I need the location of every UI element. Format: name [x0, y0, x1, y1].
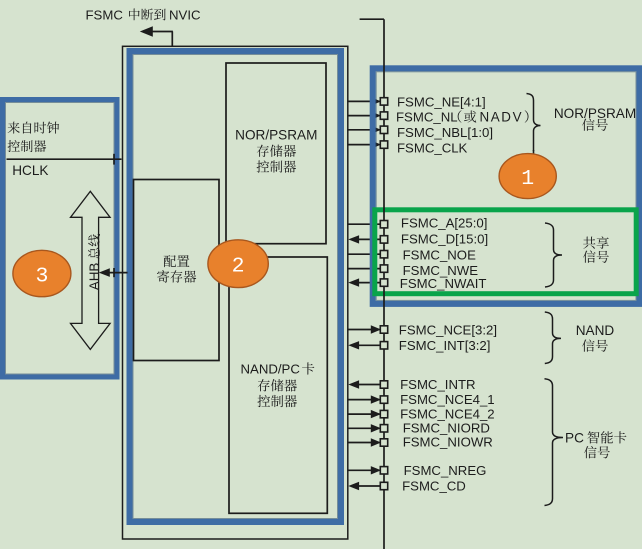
callout 3 (orange ellipse) [13, 250, 71, 296]
wire row FSMC_NOE [347, 253, 380, 255]
svg-text:FSMC_D[15:0]: FSMC_D[15:0] [401, 232, 488, 247]
svg-text:FSMC_NCE4_2: FSMC_NCE4_2 [400, 407, 495, 422]
label: registers [157, 270, 196, 283]
label FSMC_INTR [400, 377, 475, 392]
svg-text:PC: PC [565, 431, 584, 446]
rail top stub to NAND controller [360, 18, 384, 20]
wire row FSMC_NL [347, 111, 381, 119]
wire row FSMC_INTR [348, 380, 380, 388]
pin square FSMC_NL [380, 112, 387, 119]
pin square FSMC_CLK [380, 141, 387, 148]
wire row FSMC_NBL[1:0] [347, 126, 381, 134]
wire row FSMC_NIOWR [347, 438, 381, 446]
svg-text:FSMC: FSMC [86, 7, 124, 22]
pin square FSMC_NIOWR [380, 439, 387, 446]
svg-text:FSMC_A[25:0]: FSMC_A[25:0] [401, 216, 488, 231]
vertical signal rail [383, 19, 385, 549]
pin square FSMC_NWAIT [380, 279, 387, 286]
NOR/PSRAM signal group box (blue) [373, 68, 640, 304]
label FSMC_INT[3:2] [399, 338, 491, 353]
label FSMC_NL (or NADV) [396, 110, 529, 125]
clock source box (blue) [3, 100, 118, 378]
label: NOR/PSRAM [235, 128, 317, 143]
svg-text:FSMC_INTR: FSMC_INTR [400, 377, 475, 392]
label FSMC_NBL[1:0] [397, 125, 493, 140]
svg-text:FSMC_NWAIT: FSMC_NWAIT [400, 276, 487, 291]
svg-text:FSMC_NL: FSMC_NL [396, 110, 458, 125]
label FSMC_NIOWR [403, 435, 493, 450]
label: HCLK [12, 163, 48, 178]
shared signal group box (green) [375, 210, 636, 294]
pin square FSMC_INTR [380, 381, 387, 388]
pin square FSMC_NOE [380, 251, 387, 258]
label FSMC_NIORD [403, 421, 490, 436]
svg-text:NOR/PSRAM: NOR/PSRAM [554, 106, 636, 121]
label NOR/PSRAM signals [554, 106, 636, 121]
svg-text:FSMC_NREG: FSMC_NREG [404, 463, 487, 478]
label FSMC_NWAIT [400, 276, 487, 291]
config register box [134, 180, 220, 361]
wire row FSMC_NCE[3:2] [347, 325, 381, 333]
svg-text:FSMC_NCE4_1: FSMC_NCE4_1 [400, 392, 495, 407]
NAND/PC card controller box [229, 257, 327, 513]
brace PC card signals [545, 379, 564, 506]
wire row FSMC_NIORD [347, 424, 381, 432]
svg-text:FSMC_NE[4:1]: FSMC_NE[4:1] [397, 94, 486, 109]
label: FSMC interrupt to NVIC [86, 7, 201, 22]
pin square FSMC_NIORD [380, 425, 387, 432]
label FSMC_D[15:0] [401, 232, 488, 247]
label: AHB bus (rotated) [87, 234, 102, 290]
AHB bus double arrow [71, 191, 111, 349]
wire row FSMC_NREG [347, 466, 381, 474]
pin square FSMC_NWE [380, 265, 387, 272]
svg-text:FSMC_NIORD: FSMC_NIORD [403, 421, 490, 436]
label FSMC_NCE4_2 [400, 407, 495, 422]
label: config [164, 255, 190, 267]
wire row FSMC_A[25:0] [347, 223, 380, 225]
pin square FSMC_D[15:0] [380, 236, 387, 243]
label FSMC_NCE[3:2] [399, 322, 497, 337]
wire row FSMC_INT[3:2] [348, 341, 380, 349]
HCLK wire [7, 154, 122, 165]
label FSMC_CD [402, 479, 466, 494]
brace NOR/PSRAM signals [527, 94, 541, 152]
svg-text:NOR/PSRAM: NOR/PSRAM [235, 128, 317, 143]
label FSMC_NE[4:1] [397, 94, 486, 109]
label FSMC_CLK [397, 141, 468, 156]
pin square FSMC_NREG [380, 467, 387, 474]
NOR/PSRAM controller box [226, 63, 326, 244]
pin square FSMC_NE[4:1] [380, 98, 387, 105]
AHB link wire [99, 268, 128, 277]
label FSMC_A[25:0] [401, 216, 488, 231]
svg-text:FSMC_INT[3:2]: FSMC_INT[3:2] [399, 338, 491, 353]
label PC card signals [565, 431, 626, 446]
pin square FSMC_NCE[3:2] [380, 326, 387, 333]
svg-text:HCLK: HCLK [12, 163, 48, 178]
svg-text:1: 1 [521, 167, 534, 191]
svg-text:FSMC_NIOWR: FSMC_NIOWR [403, 435, 493, 450]
label FSMC_NCE4_1 [400, 392, 495, 407]
stem to callout 1 [533, 150, 535, 163]
label: NAND memory [258, 379, 297, 391]
label: NOR controller [257, 160, 296, 172]
label NAND signals [576, 323, 615, 338]
svg-text:NAND/PC: NAND/PC [241, 362, 301, 377]
label: from clock controller line1 [8, 122, 59, 134]
svg-text:FSMC_CD: FSMC_CD [402, 479, 466, 494]
svg-text:NADV: NADV [480, 110, 524, 125]
svg-text:AHB: AHB [87, 263, 102, 291]
label NOR/PSRAM signals 2 [582, 118, 608, 130]
callout 2 (orange ellipse) [208, 240, 268, 288]
brace NAND signals [545, 312, 561, 364]
label FSMC_NOE [403, 248, 476, 263]
label PC card signals 2 [584, 446, 610, 458]
callout 1 (orange ellipse) [499, 154, 556, 199]
svg-text:3: 3 [35, 265, 48, 289]
svg-text:FSMC_NBL[1:0]: FSMC_NBL[1:0] [397, 125, 493, 140]
wire row FSMC_CD [348, 482, 380, 490]
label: from clock controller line2 [8, 140, 47, 152]
label: NAND/PC card [241, 362, 315, 377]
pin square FSMC_CD [380, 482, 387, 489]
wire row FSMC_NCE4_2 [347, 410, 381, 418]
brace shared signals [545, 223, 562, 287]
svg-text:FSMC_NCE[3:2]: FSMC_NCE[3:2] [399, 322, 497, 337]
wire row FSMC_D[15:0] [348, 235, 380, 243]
pin square FSMC_NCE4_2 [380, 410, 387, 417]
svg-text:NVIC: NVIC [169, 7, 201, 22]
wire row FSMC_NWE [347, 268, 380, 270]
pin square FSMC_NBL[1:0] [380, 126, 387, 133]
label FSMC_NREG [404, 463, 487, 478]
wire row FSMC_CLK [347, 140, 381, 148]
svg-text:FSMC_NOE: FSMC_NOE [403, 248, 476, 263]
pin square FSMC_INT[3:2] [380, 342, 387, 349]
label: NOR memory [257, 145, 296, 157]
wire row FSMC_NWAIT [348, 278, 380, 286]
wire row FSMC_NCE4_1 [347, 395, 381, 403]
pin square FSMC_A[25:0] [380, 221, 387, 228]
label FSMC_NWE [403, 263, 479, 278]
pin square FSMC_NCE4_1 [380, 396, 387, 403]
label shared signals 1 [583, 236, 609, 248]
svg-text:2: 2 [232, 255, 245, 279]
label NAND signals 2 [582, 339, 608, 351]
label: NAND controller [257, 395, 296, 407]
svg-text:NAND: NAND [576, 323, 615, 338]
label shared signals 2 [583, 250, 609, 262]
FSMC block (blue box) [130, 51, 342, 522]
FSMC outer thin rectangle [123, 46, 348, 539]
svg-text:FSMC_CLK: FSMC_CLK [397, 141, 468, 156]
wire row FSMC_NE[4:1] [347, 97, 381, 105]
FSMC interrupt wire to NVIC [140, 26, 173, 47]
